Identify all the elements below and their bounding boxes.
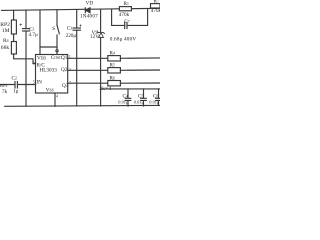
svg-text:Q3: Q3	[62, 83, 69, 89]
svg-text:Q1: Q1	[61, 55, 68, 61]
svg-text:470k: 470k	[151, 8, 160, 14]
svg-text:Q2: Q2	[61, 67, 68, 73]
svg-text:RP1: RP1	[0, 83, 9, 88]
svg-text:4.7μ: 4.7μ	[29, 32, 38, 38]
svg-text:7k: 7k	[2, 89, 8, 95]
svg-text:VD: VD	[86, 1, 94, 7]
svg-text:0.68μ 400V: 0.68μ 400V	[110, 36, 137, 42]
svg-text:HL3033: HL3033	[40, 68, 58, 74]
svg-text:2k×4: 2k×4	[99, 86, 111, 92]
svg-text:1μ: 1μ	[13, 88, 19, 94]
svg-text:4: 4	[56, 94, 58, 98]
svg-text:7: 7	[69, 82, 71, 86]
svg-text:0.01μ: 0.01μ	[149, 100, 160, 105]
svg-text:S: S	[52, 26, 55, 32]
svg-text:68k: 68k	[1, 45, 10, 51]
svg-text:RP2: RP2	[0, 22, 10, 28]
svg-text:0.01μ: 0.01μ	[134, 100, 145, 105]
svg-text:220μ: 220μ	[66, 33, 77, 39]
svg-text:IN: IN	[36, 80, 42, 86]
svg-text:1: 1	[69, 55, 71, 59]
svg-text:0.01μ: 0.01μ	[118, 100, 129, 105]
svg-text:3: 3	[33, 62, 35, 66]
svg-text:2: 2	[69, 68, 71, 72]
svg-text:470k: 470k	[119, 12, 130, 18]
svg-text:1N4007: 1N4007	[80, 13, 98, 19]
svg-text:12V: 12V	[90, 34, 99, 40]
svg-text:1M: 1M	[2, 28, 10, 34]
svg-text:5: 5	[33, 80, 35, 84]
